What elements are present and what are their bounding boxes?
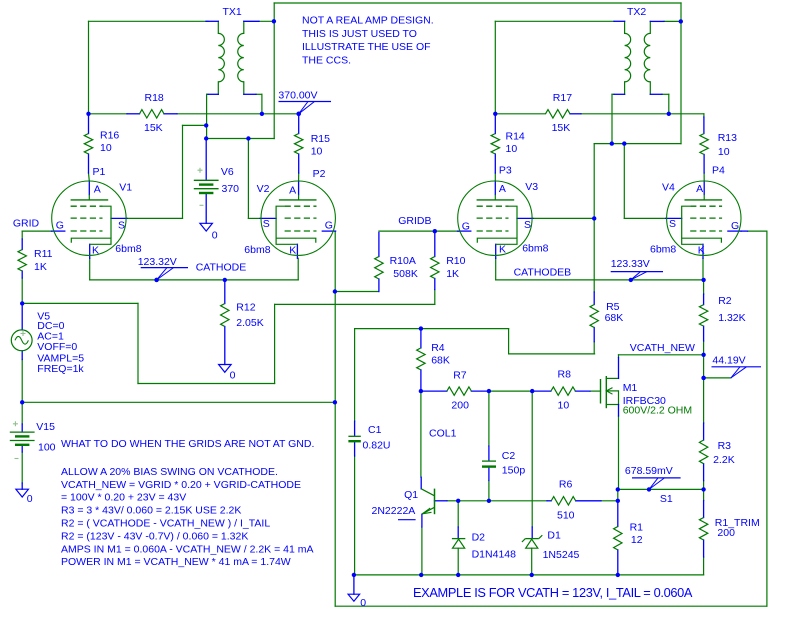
svg-text:G: G — [325, 220, 333, 232]
svg-text:12: 12 — [631, 534, 643, 546]
svg-text:R10A: R10A — [390, 255, 416, 267]
svg-text:10: 10 — [718, 146, 730, 158]
svg-text:6bm8: 6bm8 — [115, 243, 141, 255]
svg-text:R2 = ( VCATHODE - VCATH_NEW ): R2 = ( VCATHODE - VCATH_NEW ) / I_TAIL — [61, 518, 270, 530]
svg-text:10: 10 — [558, 400, 570, 412]
svg-text:P4: P4 — [712, 165, 725, 177]
svg-text:G: G — [56, 219, 64, 231]
svg-text:R3: R3 — [718, 440, 732, 452]
svg-text:V4: V4 — [662, 182, 675, 194]
svg-text:NOT A REAL AMP DESIGN.: NOT A REAL AMP DESIGN. — [302, 15, 434, 27]
svg-text:R1: R1 — [630, 521, 644, 533]
svg-text:G: G — [731, 220, 739, 232]
svg-text:R6: R6 — [559, 478, 573, 490]
svg-text:THIS IS JUST USED TO: THIS IS JUST USED TO — [302, 28, 417, 40]
svg-text:V6: V6 — [221, 166, 234, 178]
svg-text:6bm8: 6bm8 — [522, 243, 548, 255]
svg-text:P1: P1 — [93, 166, 106, 178]
svg-text:CATHODE: CATHODE — [196, 261, 247, 273]
svg-text:A: A — [499, 183, 506, 195]
svg-text:R2 = (123V - 43V -0.7V) / 0.06: R2 = (123V - 43V -0.7V) / 0.060 = 1.32K — [61, 530, 248, 542]
svg-text:6bm8: 6bm8 — [650, 244, 676, 256]
svg-text:S1: S1 — [660, 493, 673, 505]
svg-text:ILLUSTRATE THE USE OF: ILLUSTRATE THE USE OF — [302, 41, 431, 53]
svg-text:C2: C2 — [502, 450, 516, 462]
svg-text:A: A — [289, 185, 296, 197]
svg-text:0: 0 — [27, 493, 33, 505]
svg-text:44.19V: 44.19V — [712, 355, 745, 367]
svg-text:123.32V: 123.32V — [138, 256, 177, 268]
svg-text:510: 510 — [557, 510, 575, 522]
svg-text:1K: 1K — [446, 268, 459, 280]
svg-text:V3: V3 — [525, 181, 538, 193]
svg-text:2.05K: 2.05K — [236, 317, 263, 329]
svg-text:R10: R10 — [446, 255, 465, 267]
svg-text:AMPS IN M1 = 0.060A - VCATH_NE: AMPS IN M1 = 0.060A - VCATH_NEW / 2.2K =… — [61, 543, 313, 555]
svg-text:100: 100 — [38, 441, 56, 453]
svg-text:0.82U: 0.82U — [363, 440, 391, 452]
svg-text:2.2K: 2.2K — [713, 454, 735, 466]
svg-text:R8: R8 — [558, 369, 572, 381]
svg-text:15K: 15K — [144, 122, 163, 134]
svg-text:S: S — [263, 218, 270, 230]
svg-text:200: 200 — [717, 527, 735, 539]
svg-text:1N5245: 1N5245 — [543, 549, 580, 561]
svg-text:= 100V * 0.20 + 23V = 43V: = 100V * 0.20 + 23V = 43V — [61, 492, 186, 504]
svg-text:VCATH_NEW = VGRID * 0.20 + VGR: VCATH_NEW = VGRID * 0.20 + VGRID-CATHODE — [61, 479, 301, 491]
svg-text:R15: R15 — [311, 133, 330, 145]
svg-text:K: K — [499, 244, 506, 256]
svg-text:FREQ=1k: FREQ=1k — [37, 363, 84, 375]
svg-text:EXAMPLE IS FOR VCATH = 123V, I: EXAMPLE IS FOR VCATH = 123V, I_TAIL = 0.… — [413, 585, 693, 600]
svg-text:A: A — [94, 184, 101, 196]
svg-text:GRIDB: GRIDB — [398, 215, 431, 227]
svg-text:10: 10 — [506, 143, 518, 155]
svg-text:G: G — [462, 221, 470, 233]
svg-text:1.32K: 1.32K — [718, 312, 745, 324]
svg-text:2N2222A: 2N2222A — [372, 505, 416, 517]
svg-text:V2: V2 — [257, 183, 270, 195]
svg-text:1K: 1K — [34, 261, 47, 273]
svg-text:0: 0 — [230, 370, 236, 382]
svg-text:COL1: COL1 — [429, 427, 457, 439]
svg-text:R12: R12 — [236, 301, 255, 313]
svg-text:K: K — [289, 245, 296, 257]
svg-text:10: 10 — [100, 142, 112, 154]
svg-text:R18: R18 — [145, 92, 164, 104]
svg-text:68K: 68K — [431, 355, 450, 367]
svg-text:R11: R11 — [34, 248, 53, 260]
svg-text:VCATH_NEW: VCATH_NEW — [630, 342, 695, 354]
svg-text:R4: R4 — [431, 342, 445, 354]
svg-text:6bm8: 6bm8 — [244, 244, 270, 256]
svg-text:ALLOW A 20% BIAS SWING ON VCAT: ALLOW A 20% BIAS SWING ON VCATHODE. — [61, 466, 278, 478]
svg-text:M1: M1 — [623, 382, 638, 394]
svg-text:TX1: TX1 — [223, 6, 242, 18]
svg-text:15K: 15K — [552, 122, 571, 134]
svg-text:0: 0 — [360, 597, 366, 609]
svg-text:TX2: TX2 — [627, 6, 646, 18]
svg-text:D2: D2 — [472, 531, 486, 543]
svg-text:R16: R16 — [100, 130, 119, 142]
svg-text:V1: V1 — [119, 182, 132, 194]
svg-text:THE CCS.: THE CCS. — [302, 55, 351, 67]
svg-text:GRID: GRID — [13, 218, 40, 230]
svg-text:P2: P2 — [313, 168, 326, 180]
svg-text:K: K — [92, 245, 99, 257]
svg-text:508K: 508K — [393, 268, 418, 280]
svg-text:R7: R7 — [453, 370, 467, 382]
svg-text:10: 10 — [311, 146, 323, 158]
svg-text:200: 200 — [451, 400, 469, 412]
svg-text:R17: R17 — [553, 92, 572, 104]
svg-text:VOFF=0: VOFF=0 — [37, 341, 77, 353]
svg-text:123.33V: 123.33V — [611, 258, 650, 270]
svg-text:370.00V: 370.00V — [278, 89, 317, 101]
svg-text:CATHODEB: CATHODEB — [514, 266, 572, 278]
svg-text:S: S — [669, 218, 676, 230]
svg-text:R3 = 3 * 43V/ 0.060 = 2.15K US: R3 = 3 * 43V/ 0.060 = 2.15K USE 2.2K — [61, 505, 241, 517]
svg-text:S: S — [524, 219, 531, 231]
svg-text:0: 0 — [212, 229, 218, 241]
svg-text:V15: V15 — [36, 421, 55, 433]
svg-text:R2: R2 — [718, 295, 732, 307]
svg-text:P3: P3 — [499, 164, 512, 176]
svg-text:WHAT TO DO WHEN THE GRIDS ARE: WHAT TO DO WHEN THE GRIDS ARE NOT AT GND… — [61, 438, 314, 450]
svg-text:150p: 150p — [502, 465, 526, 477]
svg-text:D1: D1 — [547, 530, 561, 542]
svg-text:A: A — [696, 183, 703, 195]
svg-text:POWER IN M1 = VCATH_NEW * 41 m: POWER IN M1 = VCATH_NEW * 41 mA = 1.74W — [61, 556, 291, 568]
svg-text:C1: C1 — [368, 424, 382, 436]
svg-text:R14: R14 — [506, 131, 525, 143]
svg-text:678.59mV: 678.59mV — [625, 465, 673, 477]
svg-text:600V/2.2 OHM: 600V/2.2 OHM — [623, 405, 692, 417]
svg-text:K: K — [698, 244, 705, 256]
svg-text:R13: R13 — [718, 132, 737, 144]
svg-text:S: S — [118, 219, 125, 231]
svg-text:68K: 68K — [605, 312, 624, 324]
svg-text:D1N4148: D1N4148 — [472, 549, 517, 561]
svg-text:Q1: Q1 — [404, 489, 418, 501]
svg-text:370: 370 — [222, 183, 240, 195]
